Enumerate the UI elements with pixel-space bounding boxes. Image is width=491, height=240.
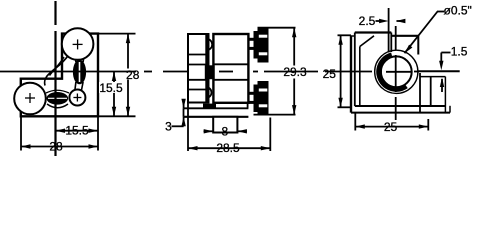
svg-text:15.5: 15.5 (65, 124, 89, 138)
svg-text:1.5: 1.5 (451, 45, 468, 59)
svg-text:28: 28 (126, 68, 140, 82)
svg-text:2.5: 2.5 (359, 14, 376, 28)
svg-text:28.5: 28.5 (216, 141, 240, 155)
svg-text:3: 3 (165, 119, 172, 133)
svg-text:ø0.5": ø0.5" (444, 4, 472, 18)
svg-text:25: 25 (323, 67, 337, 81)
svg-text:15.5: 15.5 (99, 81, 123, 95)
svg-text:8: 8 (221, 124, 228, 138)
svg-text:25: 25 (384, 120, 398, 134)
